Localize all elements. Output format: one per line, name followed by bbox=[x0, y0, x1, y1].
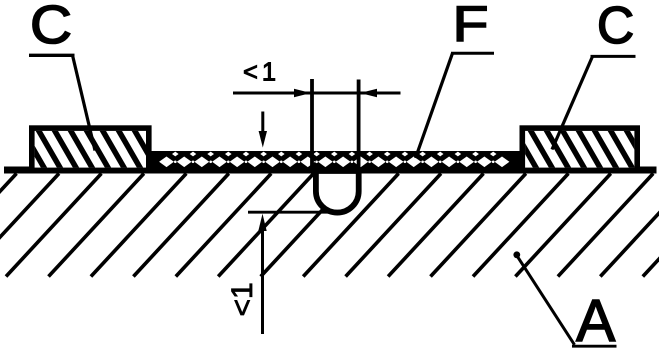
extension line right bbox=[357, 80, 361, 173]
left block C bbox=[32, 128, 149, 170]
svg-text:<1: <1 bbox=[226, 282, 259, 316]
svg-text:C: C bbox=[597, 0, 634, 54]
depth dimension upper arrow bbox=[261, 112, 264, 135]
svg-text:C: C bbox=[30, 0, 72, 55]
leader C left bbox=[73, 55, 96, 150]
depth dimension lower arrow bbox=[261, 230, 264, 334]
underline F bbox=[451, 52, 494, 55]
extension line left bbox=[310, 79, 314, 173]
width dimension lines bbox=[233, 92, 401, 95]
svg-text:<1: <1 bbox=[243, 59, 280, 87]
underline C right bbox=[591, 55, 636, 58]
underline C left bbox=[29, 54, 75, 57]
leader F bbox=[416, 53, 453, 158]
depth level line bbox=[248, 211, 328, 214]
svg-text:F: F bbox=[453, 0, 489, 52]
underline A bbox=[572, 345, 617, 348]
svg-text:A: A bbox=[576, 288, 616, 353]
leader A dot bbox=[513, 251, 520, 258]
coating layer F bbox=[150, 151, 522, 174]
blister cavity defect bbox=[316, 171, 359, 213]
leader A bbox=[517, 256, 574, 345]
surface line of substrate bbox=[4, 167, 657, 174]
leader C right bbox=[552, 56, 593, 149]
right block C bbox=[522, 128, 637, 170]
substrate hatching material A bbox=[0, 174, 659, 277]
